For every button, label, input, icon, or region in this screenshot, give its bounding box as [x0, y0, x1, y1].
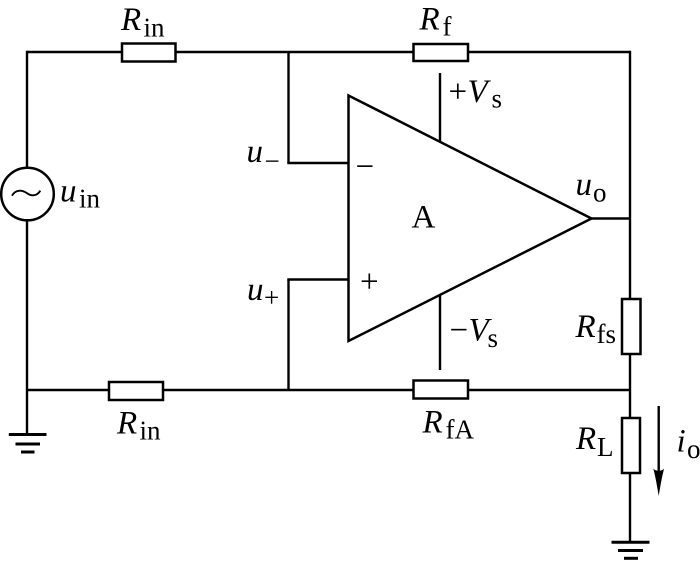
- op-amp A triangle: [349, 96, 592, 342]
- svg-text:R: R: [575, 309, 596, 345]
- label R_in bottom: [116, 406, 161, 446]
- wire -Vs stub: [439, 295, 441, 371]
- svg-text:−: −: [450, 313, 469, 349]
- resistor R_L box: [622, 418, 640, 473]
- wire op-amp output: [592, 217, 631, 219]
- label R_L: [575, 421, 614, 462]
- svg-text:u: u: [247, 134, 264, 170]
- label u_in: [60, 174, 101, 214]
- wire inverting branch vertical: [287, 52, 289, 163]
- svg-text:L: L: [597, 432, 614, 462]
- resistor R_in top box: [122, 44, 176, 62]
- svg-text:−: −: [265, 146, 280, 176]
- wire noninverting input horizontal: [287, 278, 348, 280]
- label +Vs: [449, 74, 503, 114]
- label -Vs: [450, 313, 499, 354]
- resistor R_fA box: [414, 381, 469, 399]
- wire left vertical upper: [26, 51, 28, 168]
- svg-text:in: in: [79, 184, 101, 214]
- svg-text:R: R: [419, 2, 440, 38]
- resistor R_fs box: [622, 299, 641, 354]
- svg-text:o: o: [593, 178, 607, 208]
- svg-text:u: u: [247, 272, 264, 308]
- label R_fA: [422, 405, 475, 445]
- resistor R_f box: [414, 44, 469, 61]
- wire right vertical lower: [629, 473, 631, 542]
- label R_f: [419, 2, 452, 42]
- wire right vertical middle: [629, 354, 631, 418]
- svg-text:in: in: [144, 13, 166, 43]
- wire bottom rail: [27, 389, 630, 391]
- svg-text:u: u: [60, 174, 77, 210]
- resistor R_in bottom box: [109, 382, 163, 400]
- svg-text:s: s: [488, 323, 499, 353]
- label i_o: [677, 424, 700, 465]
- svg-text:A: A: [412, 200, 436, 236]
- svg-text:R: R: [575, 421, 596, 457]
- svg-text:fs: fs: [597, 319, 617, 349]
- svg-text:−: −: [356, 149, 375, 185]
- svg-text:R: R: [422, 405, 443, 441]
- wire +Vs stub: [439, 73, 441, 141]
- svg-text:V: V: [468, 74, 492, 110]
- label R_fs: [575, 309, 617, 349]
- ground right: [612, 542, 650, 558]
- wire noninverting branch vertical: [287, 280, 289, 391]
- wire top rail: [27, 51, 630, 53]
- wire right vertical upper: [629, 51, 631, 299]
- svg-text:o: o: [687, 434, 700, 464]
- svg-text:fA: fA: [446, 415, 475, 445]
- svg-text:R: R: [120, 2, 141, 38]
- svg-text:R: R: [116, 406, 137, 442]
- svg-text:f: f: [443, 12, 452, 42]
- label u_minus: [247, 134, 280, 176]
- source u_in tilde: [12, 191, 40, 196]
- svg-text:+: +: [264, 283, 279, 313]
- wire inverting input horizontal: [287, 162, 348, 164]
- source u_in circle: [1, 168, 54, 221]
- svg-text:i: i: [677, 424, 686, 460]
- label u_plus: [247, 272, 279, 313]
- svg-text:s: s: [492, 84, 503, 114]
- svg-text:in: in: [140, 416, 162, 446]
- label R_in top: [120, 2, 165, 43]
- svg-text:+: +: [449, 74, 468, 110]
- label u_o: [576, 167, 607, 208]
- wire left vertical lower: [26, 220, 28, 435]
- svg-text:+: +: [360, 264, 379, 300]
- ground left: [9, 435, 47, 453]
- current arrow i_o: [653, 406, 664, 496]
- svg-text:u: u: [576, 167, 593, 203]
